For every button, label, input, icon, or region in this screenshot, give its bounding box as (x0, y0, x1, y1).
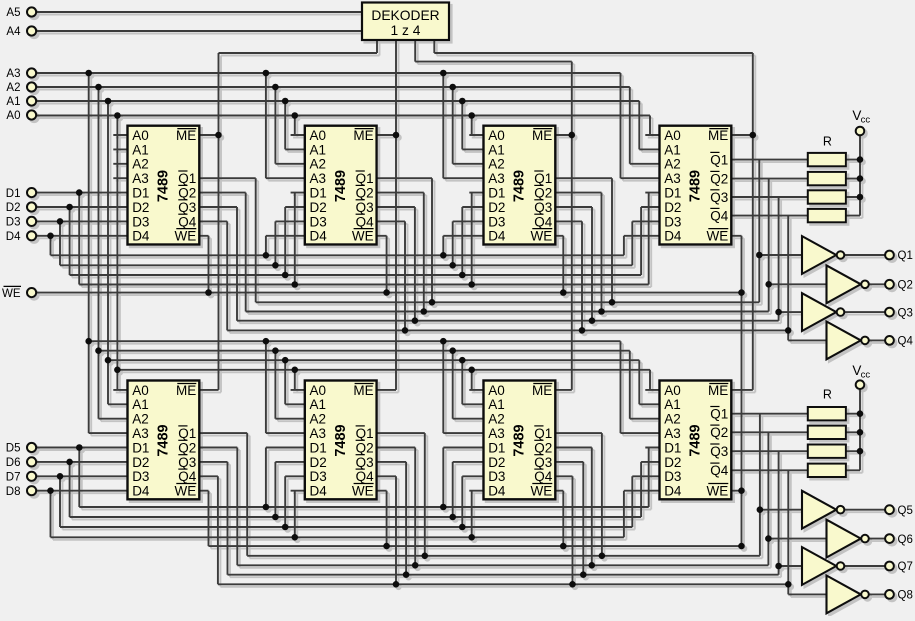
svg-text:WE: WE (352, 229, 374, 244)
svg-text:WE: WE (352, 484, 374, 499)
svg-text:Q3: Q3 (898, 307, 913, 319)
svg-text:7489: 7489 (333, 170, 349, 202)
svg-text:ME: ME (708, 128, 728, 143)
svg-text:A2: A2 (6, 82, 20, 94)
svg-text:ME: ME (708, 383, 728, 398)
svg-text:Q1: Q1 (710, 153, 728, 168)
svg-text:Q4: Q4 (356, 469, 375, 484)
svg-text:A1: A1 (664, 397, 681, 412)
svg-text:Q5: Q5 (898, 505, 913, 517)
svg-text:A1: A1 (132, 142, 149, 157)
svg-text:D3: D3 (488, 469, 505, 484)
svg-text:A2: A2 (310, 412, 327, 427)
svg-text:A3: A3 (488, 426, 505, 441)
svg-text:WE: WE (531, 484, 553, 499)
svg-text:Q1: Q1 (534, 171, 552, 186)
svg-text:D2: D2 (310, 200, 327, 215)
svg-text:D3: D3 (310, 214, 327, 229)
svg-text:A4: A4 (6, 26, 21, 38)
svg-text:A0: A0 (6, 110, 20, 122)
svg-text:D3: D3 (488, 214, 505, 229)
svg-text:7489: 7489 (512, 424, 528, 456)
svg-text:7489: 7489 (688, 424, 704, 456)
svg-text:Q1: Q1 (178, 426, 196, 441)
svg-text:Q1: Q1 (710, 407, 728, 422)
svg-text:D2: D2 (6, 202, 21, 214)
svg-text:WE: WE (175, 229, 197, 244)
svg-text:D1: D1 (488, 440, 505, 455)
svg-text:A2: A2 (132, 157, 149, 172)
svg-text:Q2: Q2 (898, 280, 913, 292)
svg-text:A3: A3 (664, 171, 681, 186)
svg-text:A3: A3 (310, 171, 327, 186)
svg-text:A0: A0 (310, 128, 327, 143)
svg-text:A1: A1 (488, 142, 505, 157)
svg-text:Q3: Q3 (710, 190, 728, 205)
svg-text:7489: 7489 (688, 170, 704, 202)
svg-text:D2: D2 (488, 200, 505, 215)
svg-text:Q3: Q3 (178, 200, 196, 215)
svg-text:A1: A1 (132, 397, 149, 412)
svg-text:A5: A5 (6, 7, 20, 19)
svg-text:D3: D3 (132, 469, 149, 484)
svg-text:D1: D1 (132, 440, 149, 455)
svg-text:Q1: Q1 (178, 171, 196, 186)
svg-text:A2: A2 (488, 412, 505, 427)
svg-text:Q1: Q1 (534, 426, 552, 441)
svg-text:D1: D1 (6, 188, 21, 200)
svg-text:D4: D4 (488, 229, 506, 244)
svg-text:WE: WE (707, 229, 729, 244)
svg-text:Q3: Q3 (534, 455, 552, 470)
svg-text:D4: D4 (664, 229, 682, 244)
svg-text:Q3: Q3 (710, 444, 728, 459)
svg-text:A2: A2 (664, 412, 681, 427)
svg-text:Q1: Q1 (356, 426, 374, 441)
svg-text:ME: ME (353, 128, 373, 143)
svg-text:Q4: Q4 (534, 214, 553, 229)
svg-text:Q4: Q4 (710, 463, 729, 478)
svg-text:Q4: Q4 (178, 469, 197, 484)
svg-text:D4: D4 (6, 231, 21, 243)
svg-text:D3: D3 (664, 214, 681, 229)
svg-text:A0: A0 (132, 383, 149, 398)
svg-text:R: R (823, 387, 832, 401)
svg-text:Q3: Q3 (178, 455, 196, 470)
svg-text:Q2: Q2 (178, 186, 196, 201)
svg-text:WE: WE (531, 229, 553, 244)
svg-text:D3: D3 (310, 469, 327, 484)
svg-text:D2: D2 (488, 455, 505, 470)
svg-text:7489: 7489 (156, 170, 172, 202)
svg-text:ME: ME (353, 383, 373, 398)
svg-text:ME: ME (532, 383, 552, 398)
svg-text:Q2: Q2 (710, 425, 728, 440)
svg-text:A3: A3 (132, 426, 149, 441)
svg-text:ME: ME (176, 128, 196, 143)
svg-text:Q1: Q1 (898, 250, 913, 262)
svg-text:D2: D2 (664, 455, 681, 470)
svg-text:ME: ME (176, 383, 196, 398)
svg-text:D4: D4 (132, 484, 150, 499)
svg-text:Q3: Q3 (534, 200, 552, 215)
svg-text:D1: D1 (664, 186, 681, 201)
svg-text:7489: 7489 (156, 424, 172, 456)
svg-text:Q1: Q1 (356, 171, 374, 186)
svg-text:Q4: Q4 (534, 469, 553, 484)
svg-text:D2: D2 (132, 200, 149, 215)
svg-text:D1: D1 (310, 186, 327, 201)
svg-text:D3: D3 (132, 214, 149, 229)
svg-text:D4: D4 (310, 229, 328, 244)
svg-text:WE: WE (2, 288, 21, 300)
svg-text:Q4: Q4 (710, 209, 729, 224)
svg-text:D2: D2 (664, 200, 681, 215)
svg-text:Q4: Q4 (356, 214, 375, 229)
svg-text:A1: A1 (310, 397, 327, 412)
svg-text:D8: D8 (6, 486, 21, 498)
svg-text:A2: A2 (310, 157, 327, 172)
svg-text:A2: A2 (664, 157, 681, 172)
svg-text:A1: A1 (488, 397, 505, 412)
svg-text:A0: A0 (664, 383, 681, 398)
svg-text:Q3: Q3 (356, 200, 374, 215)
svg-text:A3: A3 (6, 68, 20, 80)
svg-text:Q2: Q2 (356, 440, 374, 455)
svg-text:D3: D3 (664, 469, 681, 484)
svg-text:A0: A0 (488, 128, 505, 143)
svg-text:ME: ME (532, 128, 552, 143)
svg-text:D4: D4 (310, 484, 328, 499)
svg-text:7489: 7489 (512, 170, 528, 202)
svg-text:cc: cc (861, 115, 871, 126)
svg-text:Q4: Q4 (898, 336, 914, 348)
svg-text:Q2: Q2 (356, 186, 374, 201)
svg-text:A0: A0 (310, 383, 327, 398)
svg-text:7489: 7489 (333, 424, 349, 456)
svg-text:D6: D6 (6, 457, 21, 469)
svg-text:cc: cc (861, 370, 871, 381)
svg-text:Q6: Q6 (898, 534, 913, 546)
svg-text:R: R (823, 135, 832, 149)
svg-text:WE: WE (175, 484, 197, 499)
svg-text:D4: D4 (664, 484, 682, 499)
svg-text:A1: A1 (6, 96, 20, 108)
svg-text:A3: A3 (132, 171, 149, 186)
svg-text:D4: D4 (132, 229, 150, 244)
svg-text:D5: D5 (6, 443, 21, 455)
svg-text:D1: D1 (488, 186, 505, 201)
svg-text:A2: A2 (132, 412, 149, 427)
svg-text:A0: A0 (664, 128, 681, 143)
svg-text:A0: A0 (488, 383, 505, 398)
svg-text:Q2: Q2 (178, 440, 196, 455)
svg-text:Q2: Q2 (534, 186, 552, 201)
svg-text:D3: D3 (6, 217, 21, 229)
svg-text:A3: A3 (664, 426, 681, 441)
svg-text:D1: D1 (664, 440, 681, 455)
svg-text:A1: A1 (310, 142, 327, 157)
svg-text:Q2: Q2 (534, 440, 552, 455)
svg-text:Q4: Q4 (178, 214, 197, 229)
svg-text:A2: A2 (488, 157, 505, 172)
svg-text:D1: D1 (132, 186, 149, 201)
svg-text:D4: D4 (488, 484, 506, 499)
svg-text:DEKODER: DEKODER (371, 8, 439, 23)
svg-text:A3: A3 (310, 426, 327, 441)
svg-text:Q7: Q7 (898, 561, 913, 573)
svg-text:Q3: Q3 (356, 455, 374, 470)
svg-text:D2: D2 (310, 455, 327, 470)
svg-text:Q2: Q2 (710, 172, 728, 187)
svg-text:D7: D7 (6, 472, 21, 484)
svg-text:D2: D2 (132, 455, 149, 470)
svg-text:D1: D1 (310, 440, 327, 455)
svg-text:A0: A0 (132, 128, 149, 143)
svg-text:Q8: Q8 (898, 590, 913, 602)
svg-text:1 z 4: 1 z 4 (391, 23, 421, 38)
svg-text:WE: WE (707, 484, 729, 499)
svg-text:A3: A3 (488, 171, 505, 186)
svg-text:A1: A1 (664, 142, 681, 157)
